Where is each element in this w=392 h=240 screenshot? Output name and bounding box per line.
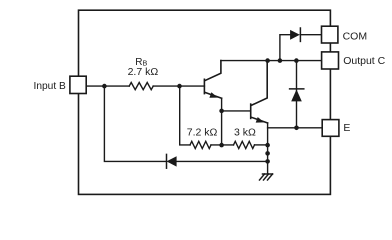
pad Output C (322, 52, 339, 69)
wire COM branch up (280, 35, 290, 61)
wire Q2 base (222, 110, 251, 112)
svg-text:COM: COM (343, 30, 368, 42)
junction node RB-divider (177, 84, 182, 89)
wire D2 to pad COM (300, 34, 321, 36)
junction node zener top (294, 58, 299, 63)
wire 7.2k to 3k (211, 144, 234, 146)
diode D1 input clamp (167, 154, 177, 168)
wire 3k to emitter column (255, 144, 268, 146)
junction node zener bottom (294, 126, 299, 131)
junction node 3k right (265, 143, 270, 148)
wire input node down (104, 86, 166, 161)
diode D3 output clamp (290, 89, 304, 102)
diode D2 to COM (290, 28, 300, 41)
svg-text:7.2 kΩ: 7.2 kΩ (187, 127, 218, 139)
wire zener branch down (296, 61, 298, 128)
svg-text:2.7 kΩ: 2.7 kΩ (128, 66, 159, 78)
junction node COM branch (278, 58, 283, 63)
pad COM (322, 26, 338, 43)
svg-text:Output C: Output C (343, 55, 385, 67)
wire Q1 emitter down (221, 98, 223, 145)
junction node Q2 base (219, 109, 224, 114)
ground (260, 174, 273, 180)
svg-text:E: E (343, 122, 350, 134)
junction node mid column (265, 151, 270, 156)
junction node input-RB (102, 84, 107, 89)
junction node Q2 collector row (265, 58, 270, 63)
resistor R3 3k zigzag (234, 141, 255, 148)
transistor Q1 (204, 61, 221, 99)
pad E (322, 120, 339, 137)
svg-text:3 kΩ: 3 kΩ (234, 127, 256, 139)
resistor RB 2.7k zigzag (129, 83, 153, 90)
pad Input B (70, 76, 86, 93)
junction node divider mid (219, 143, 224, 148)
transistor Q2 (251, 61, 268, 123)
wire input pad to RB (86, 85, 129, 87)
wire RB to Q1 base (153, 85, 204, 87)
resistor R2 7.2k zigzag (190, 141, 211, 148)
svg-text:Input B: Input B (34, 81, 66, 92)
wire collector row (221, 60, 322, 62)
junction node bottom wire (265, 159, 270, 164)
wire emitter row to pad E (268, 127, 323, 129)
wire diode D1 to ground node (177, 160, 268, 162)
wire RB node down to divider row (180, 86, 190, 145)
wire Q2 emitter down to ground (267, 123, 269, 174)
IC outline box (79, 10, 331, 194)
